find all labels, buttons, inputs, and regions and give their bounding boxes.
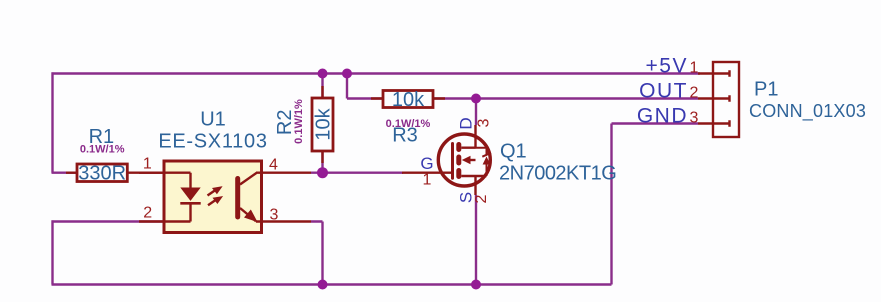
opto U1 body [164, 161, 262, 233]
wire R2 top [321, 74, 323, 99]
resistor R2 body (vertical) [312, 86, 333, 163]
svg-text:330R: 330R [78, 163, 126, 185]
connector P1 pin1 line [698, 70, 730, 76]
wire R1 feed [52, 171, 78, 173]
mosfet Q1 gate bar [451, 144, 454, 179]
connector P1 body [713, 62, 739, 137]
svg-text:3: 3 [690, 109, 699, 126]
svg-text:OUT: OUT [639, 79, 688, 102]
wire R3 left leg [347, 74, 383, 99]
opto U1 pin1 line [139, 171, 164, 173]
wire U1 pin4 to Q1 gate [311, 171, 403, 173]
mosfet Q1 substrate arrow [462, 156, 471, 164]
svg-text:3: 3 [476, 118, 493, 127]
svg-text:0.1W/1%: 0.1W/1% [80, 144, 125, 156]
svg-text:+5V: +5V [646, 54, 688, 77]
wire U1 pin2 to left [52, 220, 165, 222]
wire R3 to OUT node [433, 97, 698, 99]
wire GND leg [612, 124, 699, 285]
svg-text:P1: P1 [754, 79, 778, 101]
svg-text:Q1: Q1 [500, 141, 527, 163]
svg-text:G: G [420, 154, 433, 173]
svg-text:2: 2 [143, 205, 152, 222]
wire Q1 drain up [475, 99, 477, 126]
connector P1 pin3 line [698, 120, 730, 126]
mosfet Q1 body diode [476, 148, 492, 176]
svg-text:1: 1 [423, 172, 432, 189]
mosfet Q1 body circle [438, 134, 490, 186]
resistor R1 body [66, 164, 164, 182]
junction dot gate row [317, 167, 328, 178]
opto U1 light arrow upper [208, 187, 222, 196]
opto U1 phototransistor [238, 173, 257, 221]
mosfet Q1 channel stubs [456, 145, 461, 177]
wire R2 bottom [321, 151, 323, 173]
opto U1 light arrow lower [208, 197, 222, 206]
connector P1 pin2 line [698, 95, 730, 101]
junction dot OUT node [471, 94, 481, 104]
opto U1 pin2 line [139, 220, 164, 222]
mosfet Q1 source path [461, 176, 486, 195]
mosfet Q1 gate pin [402, 171, 452, 173]
junction dot top R2 [318, 69, 328, 79]
svg-text:CONN_01X03: CONN_01X03 [749, 101, 866, 122]
svg-text:2: 2 [473, 194, 490, 203]
opto U1 LED [164, 173, 201, 222]
wire left vertical [51, 72, 53, 172]
svg-text:U1: U1 [200, 109, 226, 131]
svg-text:GND: GND [637, 104, 688, 127]
wire left bottom vertical [51, 220, 53, 284]
mosfet Q1 drain path [461, 125, 475, 148]
wire top +5V rail [52, 72, 701, 74]
junction dot top R3 [342, 69, 352, 79]
wire bottom rail [52, 283, 612, 285]
svg-text:10k: 10k [392, 89, 425, 111]
svg-text:2N7002KT1G: 2N7002KT1G [499, 163, 616, 185]
svg-text:3: 3 [270, 207, 279, 224]
wire Q1 source down [475, 195, 477, 285]
opto U1 pin3 line [256, 220, 311, 222]
svg-text:1: 1 [143, 156, 152, 173]
junction dot bottom source [471, 280, 481, 290]
svg-text:4: 4 [269, 157, 278, 174]
resistor R3 body [371, 91, 445, 108]
svg-text:R3: R3 [392, 125, 418, 147]
svg-text:D: D [457, 117, 476, 129]
svg-text:1: 1 [690, 59, 699, 76]
svg-text:10k: 10k [313, 107, 335, 140]
wire U1 pin3 down [311, 222, 323, 285]
svg-text:2: 2 [690, 84, 699, 101]
junction dot bottom pin3 [318, 280, 328, 290]
svg-text:EE-SX1103: EE-SX1103 [158, 131, 267, 153]
svg-text:0.1W/1%: 0.1W/1% [293, 99, 305, 144]
opto U1 pin4 line [256, 171, 311, 173]
